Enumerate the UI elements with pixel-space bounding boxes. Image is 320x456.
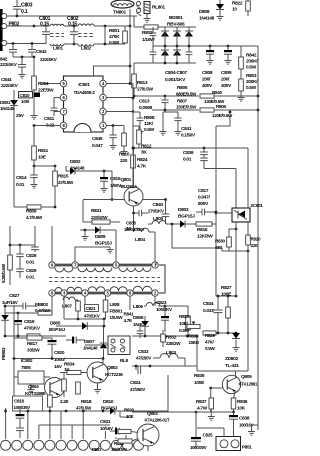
T801 sec pin e [152, 290, 158, 296]
svg-text:470K: 470K [109, 34, 120, 40]
svg-text:0.047: 0.047 [92, 143, 103, 149]
wire y412 ext [168, 411, 234, 413]
svg-text:C825: C825 [203, 433, 214, 438]
wire y345 mid [85, 344, 130, 346]
svg-text:200K/: 200K/ [246, 59, 258, 65]
svg-text:R830: R830 [215, 239, 226, 244]
svg-text:R835: R835 [194, 373, 205, 379]
wire Q801 emitter [133, 206, 135, 230]
svg-text:R804: R804 [38, 81, 49, 87]
main HT bus right [257, 46, 259, 430]
wire x236 mid [235, 229, 237, 296]
svg-text:Q803: Q803 [147, 411, 158, 417]
wire stub c4 [38, 425, 40, 439]
svg-text:0.5W: 0.5W [246, 65, 257, 71]
svg-text:P801: P801 [92, 447, 102, 451]
wire T801 right loop [155, 262, 157, 265]
wire drain right [143, 199, 166, 201]
wire sec pin4 drop [84, 296, 86, 305]
svg-text:C809: C809 [221, 70, 232, 76]
resistor R822 [246, 1, 251, 11]
wire y366 [132, 365, 197, 367]
wire ZC901 top right [247, 148, 249, 208]
T801 secondary winding c [110, 287, 127, 291]
svg-text:220: 220 [120, 158, 128, 164]
wire feedback drop [216, 112, 230, 126]
svg-text:C811: C811 [44, 116, 55, 122]
capacitor C829 [19, 262, 21, 269]
diode D802 [66, 170, 70, 172]
wire y333 [204, 332, 236, 334]
wire main output row [5, 312, 38, 314]
svg-text:ZD802: ZD802 [225, 356, 239, 362]
bridge diode D5 [173, 50, 181, 56]
svg-text:222/4KV: 222/4KV [0, 62, 18, 68]
svg-text:0.033: 0.033 [203, 308, 214, 314]
svg-text:470/1KV: 470/1KV [84, 314, 100, 319]
svg-text:BU291A: BU291A [121, 184, 138, 190]
svg-text:FB803: FB803 [1, 347, 6, 360]
svg-text:100E: 100E [194, 380, 205, 386]
svg-text:842: 842 [0, 57, 8, 63]
ground D808 [219, 14, 221, 17]
svg-text:47/0.5W: 47/0.5W [58, 180, 74, 185]
svg-text:16V: 16V [54, 364, 63, 370]
svg-text:222/4KV: 222/4KV [1, 83, 19, 89]
svg-text:1N4148: 1N4148 [199, 16, 215, 22]
capacitor C824 [137, 366, 139, 374]
T801 sec pin c [82, 290, 88, 296]
svg-text:C823: C823 [156, 300, 167, 306]
svg-text:0.5W: 0.5W [205, 346, 215, 351]
ground C809 [227, 58, 229, 61]
capacitor C830 [34, 245, 36, 247]
regulator IC802 box [18, 371, 44, 384]
degauss coil TN801 [111, 0, 134, 8]
ground C815 [103, 186, 105, 189]
T801 pin 1 [152, 262, 158, 268]
svg-text:0.5W: 0.5W [109, 40, 120, 46]
wire bridge top rail [134, 26, 196, 28]
wire Q801 collector [133, 148, 135, 187]
resistor FB801 [103, 300, 108, 312]
svg-text:25V: 25V [16, 113, 25, 119]
wire base row [83, 199, 124, 201]
svg-text:L805: L805 [153, 216, 163, 222]
svg-text:0.01: 0.01 [26, 260, 35, 266]
IC801 pin 6 [60, 94, 67, 101]
capacitor C831 sym [115, 428, 117, 435]
svg-text:C835: C835 [126, 221, 137, 226]
capacitor C835 [132, 212, 135, 215]
svg-text:R813: R813 [137, 80, 148, 86]
svg-text:RL801: RL801 [152, 5, 166, 11]
svg-text:1/0.5W: 1/0.5W [110, 315, 124, 320]
capacitor C840 [165, 200, 167, 215]
svg-text:R818: R818 [81, 399, 92, 405]
ground C841 b [177, 126, 179, 129]
capacitor C808 [209, 46, 211, 50]
svg-text:C808: C808 [202, 70, 213, 76]
svg-text:R812: R812 [141, 144, 152, 150]
transistor Q804 [45, 378, 65, 398]
svg-text:C838: C838 [239, 416, 250, 422]
connector P851 box [216, 437, 241, 451]
capacitor C804 [152, 27, 154, 33]
capacitor C820 [51, 338, 53, 340]
svg-text:BGP15J: BGP15J [95, 241, 112, 247]
svg-text:3K: 3K [141, 150, 147, 156]
svg-text:C821: C821 [86, 306, 97, 311]
resistor R806 [200, 108, 214, 112]
svg-text:C827: C827 [9, 293, 20, 299]
pot VR801 sym [187, 324, 200, 328]
svg-text:R827: R827 [221, 285, 232, 291]
svg-text:C819: C819 [24, 319, 35, 325]
diode D806 [144, 316, 146, 321]
svg-text:0.1: 0.1 [21, 9, 28, 15]
wire y166 [34, 165, 55, 167]
wire AC line 2 [7, 25, 46, 27]
wire lower snubber row [204, 168, 236, 170]
capacitor C803 [16, 0, 18, 7]
ground relay [146, 14, 148, 17]
svg-text:220: 220 [251, 243, 259, 248]
capacitor C839 [203, 148, 205, 152]
svg-text:R817: R817 [27, 341, 38, 347]
svg-text:10/16V: 10/16V [100, 426, 114, 431]
ground R803 [240, 95, 242, 98]
svg-text:8.2E/0.5W: 8.2E/0.5W [1, 263, 6, 283]
svg-text:C810: C810 [20, 93, 31, 98]
svg-text:KCT2236: KCT2236 [105, 372, 123, 377]
IC801 pin 7 [60, 108, 67, 115]
svg-text:0.01: 0.01 [16, 182, 25, 188]
transformer T801 primary bar [53, 264, 158, 267]
wire y296 [216, 295, 236, 297]
wire T801 top-left pin lead [51, 226, 53, 262]
ground P851 [251, 425, 253, 429]
capacitor C817 [201, 209, 203, 216]
svg-text:P851: P851 [242, 445, 252, 450]
resistor R815 [54, 166, 56, 171]
IC801 pin 1 [100, 122, 107, 129]
svg-text:R816: R816 [197, 227, 208, 233]
capacitor C838 [233, 412, 235, 415]
svg-text:R807: R807 [177, 99, 188, 104]
inductor L802 upper winding [78, 24, 94, 26]
diode D805 sym [56, 325, 82, 327]
svg-text:1000/35V: 1000/35V [14, 405, 31, 410]
svg-text:FB801: FB801 [110, 309, 124, 315]
connector P801 [1, 440, 11, 450]
wire pin5 left [44, 83, 60, 85]
bridge diode D4 [161, 50, 169, 56]
capacitor C823 [164, 306, 166, 316]
svg-text:C820: C820 [54, 350, 65, 356]
svg-text:R803: R803 [246, 73, 257, 79]
ground T801 shield [109, 247, 111, 250]
svg-text:D802: D802 [70, 159, 81, 165]
svg-text:R836: R836 [237, 399, 248, 405]
T801 secondary winding d [133, 286, 152, 291]
wire x35 up [34, 226, 36, 245]
resistor R825 [187, 306, 189, 316]
capacitor C828 [19, 245, 21, 254]
svg-text:200K/: 200K/ [246, 79, 258, 85]
relay RL801 contacts [137, 2, 141, 6]
IC801 pin 8 [60, 122, 67, 129]
svg-text:C828: C828 [26, 253, 37, 259]
capacitor C821 sym [72, 337, 74, 344]
svg-text:47K/: 47K/ [205, 340, 215, 345]
IC801 pin 5 [60, 80, 67, 87]
svg-text:R815: R815 [58, 174, 69, 180]
thyristor ZC901 box [232, 208, 250, 222]
resistor R811 [33, 126, 35, 147]
diode D810 sym [110, 408, 115, 415]
capacitor C818 boxed label [13, 396, 43, 411]
T801 sec pin b [61, 290, 67, 296]
svg-text:200/: 200/ [221, 77, 230, 83]
resistor R832 sym [161, 334, 166, 342]
svg-text:100E: 100E [221, 292, 232, 298]
resistor R837 [209, 398, 214, 409]
T801 secondary bar [55, 292, 158, 295]
wire x216 vertical [215, 126, 217, 296]
transistor Q803 [137, 424, 159, 446]
wire y411 long [14, 410, 168, 412]
svg-text:680E/0.5W: 680E/0.5W [176, 92, 197, 97]
resistor R812 [133, 125, 139, 127]
svg-text:10K: 10K [237, 406, 246, 412]
svg-text:222/4KV: 222/4KV [40, 57, 58, 63]
svg-text:400V: 400V [202, 83, 213, 89]
wire Q801 to T801 [133, 230, 135, 232]
wire box Q803 [132, 375, 168, 412]
svg-text:C840: C840 [153, 202, 164, 208]
IC801 pin 2 [100, 108, 107, 115]
svg-text:C834: C834 [203, 301, 214, 307]
capacitor C805 [152, 46, 154, 52]
T801 pin 5 [113, 262, 119, 268]
ground C845 [112, 143, 114, 146]
svg-text:1N4148: 1N4148 [83, 346, 98, 351]
T801 sec pin d [104, 290, 110, 296]
svg-text:10: 10 [232, 7, 237, 13]
wire stub c8 [82, 411, 84, 439]
svg-text:L808: L808 [110, 302, 120, 308]
T801 primary winding c [119, 268, 151, 272]
svg-text:KCT3198E: KCT3198E [25, 391, 46, 396]
capacitor C845 [112, 126, 114, 136]
svg-text:R805: R805 [177, 85, 188, 91]
resistor R833 [62, 379, 67, 391]
svg-text:4.7E: 4.7E [124, 318, 132, 323]
svg-text:RL8: RL8 [120, 358, 129, 363]
svg-text:R822: R822 [232, 1, 243, 7]
capacitor C821 boxed label [85, 305, 99, 312]
relay RL801 coil [144, 2, 150, 14]
rotated resistor R823 [9, 226, 11, 245]
svg-text:C824: C824 [130, 380, 141, 386]
feedback rail [196, 336, 198, 371]
bridge diode D1 [164, 27, 166, 31]
wire sec pin8 drop [129, 296, 131, 310]
svg-text:1N4C: 1N4C [133, 322, 145, 328]
svg-text:C814: C814 [16, 175, 27, 181]
T801 pin 9 [49, 262, 55, 268]
svg-text:R810: R810 [119, 152, 130, 158]
resistor R839 [76, 382, 81, 394]
wire Q803 legs [147, 446, 149, 451]
svg-text:100/200V: 100/200V [190, 445, 207, 450]
wire R813 drop [133, 63, 135, 74]
wire TN801 to bus [129, 9, 131, 26]
resistor R813 [132, 74, 137, 88]
svg-text:0.01: 0.01 [26, 275, 35, 281]
svg-text:100/: 100/ [21, 99, 30, 105]
svg-text:2C901: 2C901 [251, 203, 264, 208]
svg-text:D807: D807 [84, 339, 95, 345]
capacitor C831 [119, 411, 121, 417]
svg-text:R832: R832 [166, 335, 177, 340]
wire VCC feed [94, 66, 131, 76]
resistor R802 [144, 25, 158, 29]
connector P802 housing [0, 9, 3, 51]
svg-text:0.5W: 0.5W [246, 85, 257, 91]
T801 secondary winding a [55, 288, 62, 292]
svg-text:KTA12861: KTA12861 [239, 382, 258, 387]
wire Q805 collector [235, 371, 237, 378]
wire row R807 [152, 109, 199, 111]
wire base drop [111, 171, 113, 200]
svg-text:R824: R824 [137, 157, 148, 163]
svg-text:47/250V: 47/250V [136, 356, 152, 361]
inductor L804 [134, 228, 150, 232]
wire stub c6 [60, 411, 62, 439]
T801 primary winding a [55, 268, 73, 273]
diode D804 [4, 306, 6, 315]
resistor FB802 [38, 311, 52, 315]
capacitor C815 [103, 170, 106, 173]
svg-text:P802: P802 [9, 22, 20, 28]
resistor R841 [27, 334, 40, 338]
inductor L806 [154, 296, 156, 306]
svg-text:TN801: TN801 [113, 10, 127, 16]
svg-text:47/0.5W: 47/0.5W [76, 406, 92, 411]
svg-text:27/0.5W: 27/0.5W [137, 87, 154, 93]
svg-text:47/250V: 47/250V [130, 387, 146, 392]
inductor L802 lower winding [78, 44, 94, 46]
wire feedback down [247, 251, 249, 371]
svg-text:C841: C841 [181, 126, 192, 132]
wire sec pin3 drop [63, 296, 65, 310]
svg-text:C813: C813 [139, 99, 150, 105]
svg-text:L804: L804 [135, 237, 145, 243]
svg-text:10EB: 10EB [189, 340, 200, 345]
svg-text:470/1KV: 470/1KV [24, 326, 41, 331]
svg-text:L806: L806 [133, 304, 143, 310]
resistor R838 [49, 390, 51, 395]
svg-text:C844: C844 [1, 77, 12, 83]
resistor R801 [124, 26, 126, 31]
P851 pin 2 [231, 440, 239, 448]
resistor R834 [67, 370, 81, 374]
svg-text:150E/0.5W: 150E/0.5W [176, 105, 197, 110]
svg-text:0.5W: 0.5W [144, 127, 155, 133]
svg-text:100/2KV: 100/2KV [156, 307, 173, 312]
wire IC802 out [44, 376, 50, 378]
wire collector row [133, 147, 248, 149]
wire y336 left [5, 335, 66, 337]
resistor R840 [200, 94, 214, 98]
svg-text:R820: R820 [251, 237, 262, 242]
transistor Q802 [87, 362, 108, 383]
op-amp IC801 box [64, 76, 104, 132]
wire left drop [5, 408, 7, 439]
svg-text:C818: C818 [14, 399, 25, 404]
svg-text:0.001/1KV: 0.001/1KV [165, 77, 186, 83]
diode D801 [13, 90, 15, 100]
svg-text:R801: R801 [109, 28, 120, 34]
svg-text:C829: C829 [26, 268, 37, 274]
diode D803 [180, 220, 185, 227]
svg-text:0.01: 0.01 [183, 157, 192, 163]
IC801 pin 4 [100, 80, 107, 87]
wire bridge mid rail [153, 45, 258, 47]
wire pin3 net [132, 83, 134, 126]
inductor L807 [63, 296, 65, 300]
ground C844 [21, 72, 23, 75]
resistor R843 [77, 300, 79, 301]
wire AC line top [7, 15, 137, 17]
connector P802 pin 3 [2, 40, 7, 45]
ground R808 [139, 126, 141, 129]
wire feedback tap [172, 224, 222, 251]
wire y336 mid [132, 335, 197, 337]
T801 secondary winding b [88, 287, 105, 291]
resistor R809 [27, 205, 41, 209]
svg-text:Q802: Q802 [107, 365, 118, 371]
resistor R803 [240, 69, 242, 79]
resistor R842 [240, 46, 242, 57]
wire y358 rail [14, 358, 103, 360]
svg-text:200/: 200/ [202, 77, 211, 83]
wire pin6 left [54, 97, 60, 99]
svg-text:R809: R809 [26, 209, 37, 215]
svg-text:0.47/1W: 0.47/1W [35, 308, 51, 313]
ground D809 [84, 230, 86, 234]
core dashes L801 [50, 33, 64, 35]
svg-text:2.2E: 2.2E [60, 399, 68, 404]
transistor Q801 [124, 187, 143, 206]
svg-text:C817: C817 [198, 188, 209, 194]
svg-text:1N4148: 1N4148 [70, 166, 85, 171]
ground R837 [210, 414, 212, 417]
capacitor C822b [137, 330, 144, 332]
svg-text:0.047/: 0.047/ [198, 195, 211, 201]
svg-text:7805: 7805 [21, 365, 31, 371]
svg-text:R808: R808 [144, 115, 155, 121]
capacitor C827 [22, 303, 24, 310]
diode D808 [219, 0, 221, 4]
wire y319 [64, 318, 106, 320]
ground C808 [209, 58, 211, 61]
resistor R820 [246, 235, 251, 245]
svg-text:1N4148: 1N4148 [0, 106, 15, 111]
svg-text:1K: 1K [64, 367, 70, 373]
